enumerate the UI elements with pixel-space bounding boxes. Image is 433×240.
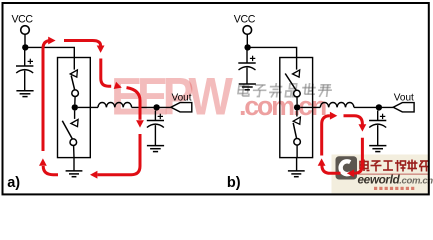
eeworld logo slogan dashes (374, 187, 414, 190)
svg-text:eeworld.com.cn: eeworld.com.cn (358, 173, 433, 187)
wire red a seg3 down right of box (101, 59, 111, 87)
capacitor C2 top plate (147, 120, 164, 122)
wire red a seg5 down to bottom left (98, 134, 141, 175)
watermark gray CJK 电子产品世界 (238, 83, 333, 98)
svg-text:a): a) (7, 175, 20, 191)
ground output a (147, 146, 164, 152)
wire S3 to SW node (296, 97, 298, 105)
wire red b seg2 top right corner down (344, 116, 363, 125)
arrow a right (top) (48, 37, 55, 45)
eeworld logo block background (332, 155, 430, 194)
wire S1 to SW node (74, 97, 76, 105)
capacitor C3 plus sign (250, 56, 255, 61)
wire box to ground b (296, 158, 298, 171)
capacitor C3 input b: stem (246, 47, 248, 63)
capacitor C2 plus sign (158, 114, 163, 119)
frame border (3, 3, 429, 194)
arrow b up (bottom left) (318, 158, 326, 165)
VCC terminal a (21, 26, 30, 35)
wire red a seg6 bottom left corner up (43, 166, 58, 175)
svg-text:Vout: Vout (172, 93, 192, 104)
node input junction b (244, 44, 250, 50)
wire red b seg3 right down to bottom (354, 138, 362, 174)
wire S2 to box bottom (73, 146, 75, 158)
arrow a right-down (to inductor) (114, 82, 122, 89)
arrow b down (right top) (359, 124, 367, 131)
wire VCC terminal to junction b (246, 34, 248, 47)
eeworld logo square (336, 156, 358, 179)
wire VCC bus a (25, 47, 74, 69)
svg-text:Vout: Vout (394, 93, 414, 104)
switch S1 lever (71, 76, 74, 90)
node output b (376, 104, 382, 110)
wire SW to inductor (78, 106, 98, 108)
wire L1 to Vout tag (132, 106, 171, 108)
switch S4 lever (293, 123, 296, 139)
switch S3 contact circle (294, 90, 301, 97)
wire C1 to ground (24, 71, 26, 91)
node SW b (294, 104, 300, 110)
wire red a seg1 left vertical up (43, 41, 51, 152)
svg-text:b): b) (227, 175, 241, 191)
ground box a (66, 171, 83, 177)
wire VCC terminal to junction (24, 34, 26, 47)
arrow b right (top) (330, 112, 337, 120)
capacitor C2 output a: stem (154, 111, 156, 121)
capacitor C1 curved plate (16, 70, 33, 73)
arrow a up (bottom left) (39, 158, 47, 165)
arrow a down (through wire) (136, 120, 144, 127)
op-amp/IC box U2 (280, 58, 313, 158)
node SW a (72, 104, 78, 110)
svg-text:VCC: VCC (12, 14, 34, 26)
inductor L1 (98, 103, 132, 108)
capacitor C4 output b: stem (377, 111, 379, 121)
wire red a seg4 arc over inductor down (127, 88, 141, 120)
capacitor C3 top plate (238, 62, 255, 64)
switch S4 triangle (293, 117, 300, 124)
arrow a down (top right corner) (97, 46, 105, 53)
Vout tag b (393, 103, 414, 112)
wire red b seg4 bottom left corner up (322, 165, 341, 173)
wire L2 to Vout tag b (354, 106, 393, 108)
wire C2 to ground (154, 125, 156, 145)
arrow b left (bottom) (347, 169, 354, 177)
VCC terminal b (243, 26, 252, 35)
capacitor C3 curved plate (239, 67, 256, 70)
capacitor C1 input a: stem (24, 47, 26, 66)
capacitor C1 top plate (16, 65, 33, 67)
ground input a (16, 91, 33, 97)
ground box b (288, 171, 305, 177)
switch S2 contact circle (70, 139, 77, 146)
ground input b (239, 84, 256, 90)
wire C4 to ground (377, 125, 379, 145)
eeworld logo CJK title 电子工程世界 (360, 160, 430, 172)
wire red a seg2 top to corner down (64, 41, 101, 46)
wire box to ground a (73, 158, 75, 171)
capacitor C1 plus sign (28, 59, 33, 64)
switch S2 lever (62, 121, 73, 140)
capacitor C4 curved plate (369, 124, 386, 127)
switch S3 (high side, open) triangle (293, 70, 300, 77)
switch S3 lever (285, 74, 296, 91)
wire SW to inductor b (300, 106, 320, 108)
wire VCC bus b (247, 47, 296, 69)
inductor L2 (320, 103, 354, 108)
eeworld logo separator line (358, 173, 429, 175)
op-amp/IC box U1 (58, 58, 91, 158)
capacitor C4 plus sign (380, 114, 385, 119)
switch S1 (high side, closed) triangle (70, 70, 77, 77)
capacitor C2 curved plate (147, 124, 164, 127)
svg-text:VCC: VCC (234, 14, 256, 26)
wire C3 to ground (246, 68, 248, 84)
switch S2 (low side, open) fixed line (74, 111, 76, 119)
eeworld logo C glyph (341, 161, 351, 174)
switch S4 (low side, closed) fixed line (296, 111, 298, 117)
capacitor C4 top plate (369, 120, 386, 122)
switch S2 triangle (71, 119, 78, 126)
node input junction a (22, 44, 28, 50)
arrow a left (bottom) (90, 171, 97, 179)
switch S4 contact circle (294, 139, 301, 146)
Vout tag a (171, 103, 192, 112)
ground output b (369, 146, 386, 152)
switch S1 contact circle (72, 90, 79, 97)
wire S4 to box bottom (296, 145, 298, 158)
wire red b seg1 left up to top (322, 116, 330, 156)
node output a (153, 104, 159, 110)
